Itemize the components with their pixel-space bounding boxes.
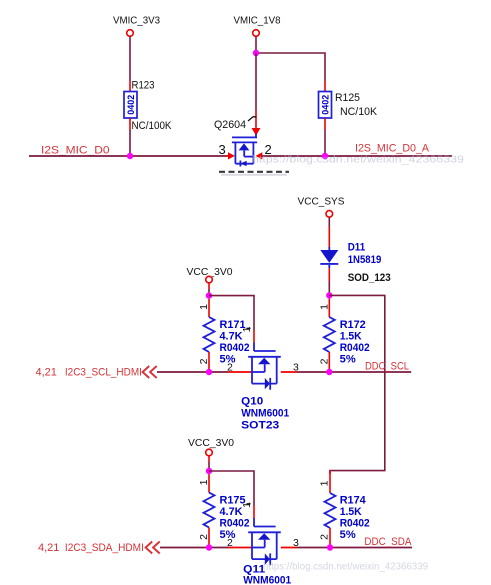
svg-text:4,21: 4,21 [36,366,57,378]
svg-text:VMIC_3V3: VMIC_3V3 [113,15,160,27]
junction VCC_3V0 node lower [206,468,212,474]
svg-text:5%: 5% [340,529,356,541]
svg-text:SOD_123: SOD_123 [348,272,391,284]
svg-text:R175: R175 [220,494,246,506]
svg-text:R171: R171 [220,319,246,331]
wire R123 to I2S_MIC_D0 [129,130,131,157]
svg-text:I2S_MIC_D0: I2S_MIC_D0 [41,145,110,157]
diode D11 [320,227,338,281]
pin 2 arrow Q2604 [256,152,263,159]
svg-text:VMIC_1V8: VMIC_1V8 [234,15,281,27]
pin 1 gate stub Q2604 [252,111,261,136]
svg-text:DDC_SCL: DDC_SCL [365,361,409,373]
resistor R123 [124,81,137,130]
svg-text:1: 1 [198,479,210,485]
transistor Q10 [248,343,281,390]
svg-text:1: 1 [318,304,330,310]
svg-text:I2C3_SCL_HDMI: I2C3_SCL_HDMI [65,366,142,378]
wire VCC_3V0 lower down [208,456,210,471]
wire VCC_3V0 down [208,283,210,296]
svg-text:NC/10K: NC/10K [340,106,378,118]
marker tick Q2604 [248,117,257,121]
resistor R171 [204,299,215,372]
svg-text:Q10: Q10 [241,395,263,407]
svg-text:R172: R172 [340,319,366,331]
pin 2 stub Q10 [228,371,252,373]
resistor R174 [325,471,336,548]
wire gate branch Q2604 [255,53,257,111]
svg-text:2: 2 [318,358,330,364]
svg-text:4,21: 4,21 [38,542,59,554]
wire VMIC_3V3 to R123 [129,36,131,81]
pin 2 stub Q11 [228,547,252,549]
junction R174 SDA [327,544,333,550]
svg-text:https://blog.csdn.net/weixin_4: https://blog.csdn.net/weixin_42366339 [252,155,464,166]
svg-text:DDC_SDA: DDC_SDA [364,536,412,548]
junction I2S_MIC_D0 R123 [127,153,133,159]
svg-text:2: 2 [227,361,233,373]
wire D11 node to R174 [329,295,385,474]
svg-text:2: 2 [198,358,210,364]
wire I2S_MIC_D0 [29,155,228,157]
svg-text:https://blog.csdn.net/weixin_4: https://blog.csdn.net/weixin_42366339 [263,562,428,573]
resistor R172 [324,299,335,372]
junction R175 SDA [206,544,212,550]
wire I2S_MIC_D0_A [262,155,452,157]
svg-text:VCC_SYS: VCC_SYS [298,195,345,207]
wire VMIC_1V8 down [255,36,257,53]
resistor R175 [204,474,215,547]
wire D11 to junction [328,281,330,295]
svg-text:1N5819: 1N5819 [348,254,382,266]
junction R171 SCL [206,369,212,375]
power symbol VMIC_3V3 [113,15,160,37]
svg-text:3: 3 [219,142,226,157]
junction VCC_3V0 node upper [206,292,212,298]
svg-text:1.5K: 1.5K [340,506,362,518]
marker tick R171 [247,327,251,329]
wire VCC_3V0 to Q11 gate [209,471,254,506]
svg-text:NC/100K: NC/100K [132,120,173,132]
power symbol VCC_SYS [298,195,345,217]
svg-text:5%: 5% [340,353,356,365]
wire I2C3_SDA_HDMI [160,547,228,549]
wire I2C3_SCL_HDMI [157,371,228,373]
svg-text:4.7K: 4.7K [220,330,243,342]
resistor R125 [319,81,332,130]
power symbol VCC_3V0 upper [187,266,233,283]
svg-text:R125: R125 [335,92,360,104]
svg-text:R0402: R0402 [220,517,250,529]
svg-text:I2S_MIC_D0_A: I2S_MIC_D0_A [355,142,430,154]
transistor Q2604 [232,134,257,167]
pin 1 stub Q11 [253,506,255,518]
off-page connector SCL [143,366,157,378]
svg-text:0402: 0402 [126,95,136,115]
power symbol VMIC_1V8 [234,15,281,37]
svg-text:R0402: R0402 [340,517,370,529]
wire DDC_SDA [297,547,412,549]
svg-text:SOT23: SOT23 [241,419,279,431]
off-page connector SDA [146,542,160,554]
wire VCC_3V0 to Q10 gate [209,296,254,331]
svg-text:WNM6001: WNM6001 [243,575,291,585]
redacted value label Q2604 [219,172,289,175]
junction I2S_MIC_D0_A R125 [322,153,328,159]
svg-text:WNM6001: WNM6001 [241,407,289,419]
pin 3 stub Q11 [281,547,297,549]
transistor Q11 [248,518,281,565]
power symbol VCC_3V0 lower [188,437,234,456]
wire R125 to I2S_MIC_D0_A [324,130,326,157]
pin 3 stub Q10 [281,371,297,373]
svg-text:1: 1 [198,304,210,310]
svg-text:Q2604: Q2604 [214,119,246,131]
svg-text:Q11: Q11 [243,563,265,575]
svg-text:R123: R123 [132,80,155,92]
svg-text:I2C3_SDA_HDMI: I2C3_SDA_HDMI [65,542,144,554]
pin 1 stub Q10 [253,331,255,343]
svg-text:VCC_3V0: VCC_3V0 [188,437,234,449]
junction VMIC_1V8 node [253,50,259,56]
wire to R125 branch [256,53,325,81]
svg-text:R0402: R0402 [220,342,250,354]
marker tick R175 [247,503,251,505]
wire DDC_SCL [297,371,411,373]
svg-text:R0402: R0402 [340,342,370,354]
svg-text:0402: 0402 [321,95,331,115]
svg-text:D11: D11 [348,241,366,253]
svg-text:2: 2 [227,537,233,549]
svg-text:4.7K: 4.7K [220,506,243,518]
wire VCC_SYS to D11 [328,217,330,227]
svg-text:2: 2 [318,534,330,540]
junction R172 SCL [326,369,332,375]
svg-text:2: 2 [198,534,210,540]
svg-text:R174: R174 [340,494,367,506]
junction D11 R172 node [326,292,332,298]
svg-text:1: 1 [318,480,330,486]
pin 3 arrow Q2604 [226,152,235,159]
svg-text:1.5K: 1.5K [340,330,362,342]
